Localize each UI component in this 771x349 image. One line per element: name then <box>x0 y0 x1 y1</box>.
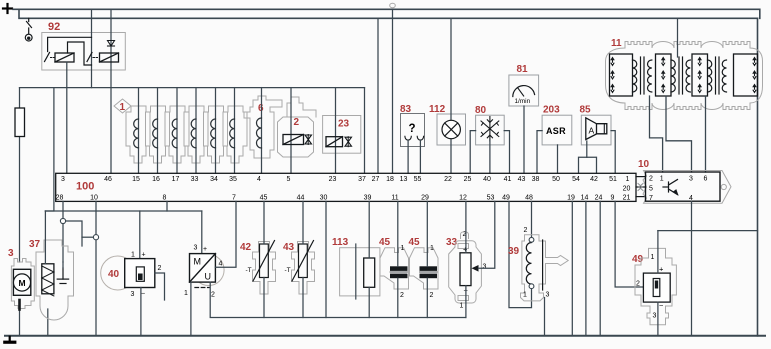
svg-text:M: M <box>18 278 25 288</box>
ECU top row pin labels <box>61 176 630 183</box>
ECU to connector 10 row links <box>636 177 646 197</box>
33 pin 3 arrow <box>472 265 479 272</box>
level sensor 37 resistor element <box>42 264 54 296</box>
svg-text:48: 48 <box>525 195 533 202</box>
wire: ECU pin 28 down to fuel pump with node <box>62 201 64 262</box>
ignition key switch <box>25 18 32 41</box>
svg-text:19: 19 <box>567 195 575 202</box>
ECU 100 box <box>56 173 636 201</box>
solenoid valve 23 wire to ECU pin 23 <box>335 88 337 174</box>
svg-text:23: 23 <box>329 176 337 183</box>
45b piezo plates <box>420 266 438 278</box>
connector 10 pin labels <box>649 176 708 202</box>
svg-text:-T: -T <box>285 267 291 274</box>
svg-text:35: 35 <box>229 176 237 183</box>
39 coil winding <box>526 243 531 285</box>
svg-text:12: 12 <box>459 195 467 202</box>
wire: 31 pin 2 to sensor return bus <box>210 282 466 317</box>
wire: feed drop to throttle switch 40 <box>139 211 141 259</box>
warning lamp 112 box <box>437 114 466 145</box>
injector coils <box>134 119 235 148</box>
relay 2 contact blade <box>87 53 92 62</box>
svg-text:2: 2 <box>430 292 434 299</box>
svg-text:4: 4 <box>219 261 223 268</box>
diagnostic connector 83 box <box>401 114 425 147</box>
fuse <box>15 108 25 137</box>
throttle switch 40 box <box>125 259 155 288</box>
svg-text:44: 44 <box>297 195 305 202</box>
lamp 112 bulb <box>442 120 460 138</box>
wire: ECU pin 7 to 31 pin 4 <box>215 201 236 267</box>
svg-text:ASR: ASR <box>546 126 566 136</box>
fuel pump 3 body outline <box>11 259 34 309</box>
wire: actuator feed horizontal <box>45 210 201 212</box>
39 terminal circles <box>529 237 534 242</box>
coil pack spark tower 1 <box>610 54 633 96</box>
svg-text:11: 11 <box>611 38 622 49</box>
wire: 85 bottom fork to ECU pins 54 and 42 <box>586 141 588 157</box>
wire: relay1 contact feed inside box 92 <box>48 37 92 51</box>
wire: 49 pin 1 feed from right rail <box>657 231 659 274</box>
svg-text:112: 112 <box>429 104 446 115</box>
idle actuator 31 box <box>190 254 216 283</box>
wire: 85 right stub to ECU pin 51 <box>611 131 615 174</box>
svg-text:5: 5 <box>287 176 291 183</box>
wire: coil pack output to connector 10 pin 1 <box>650 96 663 172</box>
wire: 83 right contact to ECU pin 55 <box>419 140 421 173</box>
svg-text:92: 92 <box>48 21 60 33</box>
buzzer horn symbol with A <box>586 118 607 140</box>
wire: rail2 through lamp 112 to ECU pin 22 <box>450 18 452 173</box>
33 sensing element <box>460 253 471 286</box>
wire: ECU pin 19 to ground <box>571 201 573 335</box>
injector 4 body <box>184 106 208 163</box>
injector 2 body <box>146 106 170 163</box>
idle actuator 31 circle <box>193 255 224 286</box>
svg-text:38: 38 <box>532 176 540 183</box>
wire: top supply rail 1 <box>13 9 760 18</box>
wire: ECU pin 9 to hall sensor pin 2 <box>615 201 643 287</box>
tachometer gauge arc and needle <box>513 86 535 97</box>
svg-text:25: 25 <box>464 176 472 183</box>
wire: ECU pin 45 through 42 to return bus <box>263 201 265 244</box>
wire: ECU pin 39 through 113 to return bus <box>368 201 370 258</box>
snowflake symbol <box>481 117 499 142</box>
wire: feed drop to idle actuator 31 pin 3 <box>201 211 203 254</box>
svg-text:1: 1 <box>660 176 664 183</box>
wire: coil pack output to connector 10 pin 6 <box>705 96 707 172</box>
svg-text:2: 2 <box>400 292 404 299</box>
svg-text:10: 10 <box>638 159 650 170</box>
svg-text:40: 40 <box>108 269 120 280</box>
AC request 80 box <box>476 115 505 145</box>
wire: 203 bottom to ECU pin 50 <box>557 145 559 173</box>
wire: ECU pin 49 to crank sensor pin 1 <box>509 201 532 307</box>
wire: 49 pin 3 to ground <box>657 302 659 336</box>
113 resistor element <box>364 258 375 287</box>
wire: fuel pump supply from bus with fuse <box>19 88 21 262</box>
injector 1 body <box>126 106 150 163</box>
solenoid valve 23 box <box>323 116 361 154</box>
lambda sensor 33 body <box>449 241 482 303</box>
svg-text:2: 2 <box>636 281 640 288</box>
svg-text:100: 100 <box>76 181 94 193</box>
knock sensor 45b body <box>410 248 439 289</box>
relay 1 coil <box>55 53 74 62</box>
coil pack windings 1 <box>633 57 652 94</box>
coil 6 wire to ECU pin 4 <box>261 88 263 174</box>
39 core line <box>542 240 544 290</box>
battery plus terminal <box>3 4 12 13</box>
ground rail bottom <box>5 335 765 337</box>
wire: 83 left contact to ECU pin 13 <box>407 140 409 173</box>
solenoid valve 2 neck outline <box>287 97 316 117</box>
wire: 203 left stub to ECU pin 38 <box>537 131 542 174</box>
svg-text:18: 18 <box>386 176 394 183</box>
svg-text:1/min: 1/min <box>515 98 531 105</box>
wire: 39 pin 3 to ground <box>544 298 546 336</box>
svg-text:3: 3 <box>546 292 550 299</box>
wire: relay1 coil output to ECU pin 3 <box>66 62 68 173</box>
40 pin labels <box>131 252 162 299</box>
svg-text:80: 80 <box>475 105 487 116</box>
svg-text:8: 8 <box>163 195 167 202</box>
svg-text:7: 7 <box>649 195 653 202</box>
svg-text:41: 41 <box>504 176 512 183</box>
wire: ECU pin 30 to return bus <box>325 201 327 317</box>
svg-text:1: 1 <box>184 290 188 297</box>
svg-text:22: 22 <box>444 176 452 183</box>
svg-text:A: A <box>589 126 595 136</box>
svg-text:203: 203 <box>543 105 560 116</box>
wire: rail2 down to ECU pin 27 <box>377 18 379 173</box>
knock sensor 45a body <box>380 248 409 289</box>
ignition coil pack 11 housing <box>606 42 763 110</box>
wire: bus drop to actuator feed line <box>45 88 54 211</box>
svg-text:2: 2 <box>211 292 215 299</box>
svg-text:54: 54 <box>572 176 580 183</box>
svg-text:29: 29 <box>421 195 429 202</box>
wire: coil pack output to connector 10 pin 3 <box>666 96 692 172</box>
wire: injector supply bus <box>20 87 365 89</box>
wire: ECU pin 11 through 45a to return bus <box>397 201 399 266</box>
injector 6 body <box>223 106 247 163</box>
45a piezo plates <box>390 266 408 278</box>
resistor 113 box <box>340 248 380 296</box>
wire: ECU pin 14 to ground <box>585 201 587 335</box>
switch element inside 40 <box>136 267 144 281</box>
svg-text:1: 1 <box>460 303 464 310</box>
coil pack spark tower 2 <box>656 54 672 96</box>
relay 1 contact blade <box>45 53 50 62</box>
svg-text:1: 1 <box>401 245 405 252</box>
solenoid valve 2 body outline <box>278 117 314 157</box>
wire: bus end down to ECU pin 37 <box>364 88 366 174</box>
svg-text:4: 4 <box>257 176 261 183</box>
solenoid valve 2 wire to ECU pin 5 <box>290 88 292 174</box>
hook contacts inside 83 <box>405 136 424 140</box>
svg-text:9: 9 <box>611 195 615 202</box>
svg-text:21: 21 <box>623 195 631 202</box>
42 resistor element <box>253 241 275 282</box>
svg-text:15: 15 <box>132 176 140 183</box>
svg-text:50: 50 <box>552 176 560 183</box>
svg-text:U: U <box>205 272 212 282</box>
31 minus dashes <box>195 287 209 289</box>
wire: rail1 drop to relay coil 2 / ECU pin 46 <box>110 9 112 173</box>
solenoid valve 2 coil element <box>283 135 312 145</box>
31 pin labels <box>184 245 223 299</box>
injector 5 body <box>204 106 228 163</box>
wire: ECU pin 48 to crank sensor pin 2 <box>531 201 533 237</box>
svg-text:1: 1 <box>131 252 135 259</box>
level sensor 37 float contact <box>57 268 68 284</box>
buzzer 85 box <box>581 115 611 145</box>
svg-text:17: 17 <box>172 176 180 183</box>
svg-text:28: 28 <box>56 195 64 202</box>
svg-text:−: − <box>659 301 664 310</box>
svg-text:13: 13 <box>400 176 408 183</box>
svg-text:1: 1 <box>523 292 527 299</box>
coil pack windings 3 <box>708 57 727 94</box>
svg-text:42: 42 <box>590 176 598 183</box>
svg-text:11: 11 <box>391 195 398 202</box>
connector 10 module box <box>646 172 721 201</box>
svg-text:3: 3 <box>689 176 693 183</box>
solenoid valve 23 coil element <box>326 137 352 147</box>
svg-text:3: 3 <box>8 248 14 259</box>
svg-text:M: M <box>194 257 202 267</box>
wire: ECU pin 29 through 45b to return bus <box>426 201 428 266</box>
wire: 81 to ECU pin 43 <box>523 106 525 173</box>
diode above relay 2 <box>108 41 115 47</box>
coil 6 winding <box>257 118 262 148</box>
fuel pump 3 motor <box>13 269 30 295</box>
hall sensor 49 body <box>635 248 676 324</box>
wire: 80 left stub to ECU pin 25 <box>470 131 475 174</box>
svg-text:40: 40 <box>483 176 491 183</box>
svg-text:39: 39 <box>364 195 372 202</box>
air temp sensor 43 body <box>292 242 315 295</box>
wire: ECU pin 8 to actuator feed line <box>166 201 168 211</box>
wire: fuel pump bottom to ground <box>19 309 21 336</box>
wire: rail1 drop through box92 to injector bus (relay 2 contact feed) <box>91 9 93 87</box>
svg-text:113: 113 <box>332 237 349 248</box>
svg-text:42: 42 <box>240 242 252 253</box>
svg-text:3: 3 <box>61 176 65 183</box>
svg-text:+: + <box>142 252 146 259</box>
relay box 92 outline <box>42 33 126 71</box>
svg-text:43: 43 <box>283 242 295 253</box>
wire: 40 pin 2 stub <box>155 273 165 300</box>
svg-text:3: 3 <box>194 245 198 252</box>
injector 3 body <box>165 106 189 163</box>
svg-text:2: 2 <box>649 176 653 183</box>
svg-text:2: 2 <box>294 117 300 128</box>
wire: 40 pin 3 to ground <box>140 288 142 336</box>
hall element <box>653 279 660 297</box>
wire: feed line left end into sensor resistor <box>44 211 46 264</box>
wire: top supply rail 2 <box>19 9 758 18</box>
svg-text:45: 45 <box>379 237 391 248</box>
svg-text:5: 5 <box>649 186 653 193</box>
svg-text:45: 45 <box>260 195 268 202</box>
wire: ECU pin 12 through 33 <box>465 201 467 252</box>
throttle switch 40 circle <box>101 256 135 290</box>
fuel level sensor 37 body outline <box>36 240 74 320</box>
wire: node down into level sensor float <box>62 262 64 268</box>
svg-text:49: 49 <box>632 254 644 265</box>
connector arrows between ECU and 10 <box>638 184 643 191</box>
svg-text:53: 53 <box>487 195 495 202</box>
wire: rail1 down to ECU pin 18 <box>392 9 394 173</box>
svg-text:37: 37 <box>358 176 366 183</box>
wire: camshaft sensor supply from right rail <box>658 230 758 232</box>
wire: ECU pin 53 to 33 heater arrow <box>479 201 495 268</box>
ground symbol bottom-left <box>5 337 15 342</box>
wire: ECU pin 44 through 43 to return bus <box>302 201 304 244</box>
wire: rail2 drop into coil pack <box>677 18 679 57</box>
svg-text:14: 14 <box>581 195 589 202</box>
svg-text:2: 2 <box>158 265 162 272</box>
coil pack windings 2 <box>671 57 690 94</box>
wire: connector 10 pin 4 to ground <box>691 201 693 335</box>
svg-text:34: 34 <box>210 176 218 183</box>
svg-text:4: 4 <box>689 195 693 202</box>
ECU bottom row pin labels <box>56 195 631 202</box>
svg-text:45: 45 <box>409 237 421 248</box>
coil pack spark tower 4 <box>734 54 758 96</box>
wire: 80 right stub to ECU pin 41 <box>504 131 509 174</box>
connector 10 housing <box>643 171 731 204</box>
coil pack spark tower 3 <box>692 54 708 96</box>
svg-text:3: 3 <box>483 264 487 271</box>
wire: 31 pin 1 to ground <box>190 282 192 336</box>
wire: ECU pin 10 down with node branch <box>95 201 97 335</box>
svg-text:1: 1 <box>651 254 655 261</box>
injector group 1 label diamond <box>114 99 131 113</box>
svg-text:24: 24 <box>595 195 603 202</box>
svg-text:+: + <box>659 265 664 274</box>
svg-text:-T: -T <box>246 267 252 274</box>
lambda sensor 33 top clip <box>461 232 469 239</box>
svg-text:−: − <box>141 291 145 298</box>
wire: ECU pin 24 to ground <box>599 201 601 335</box>
injector coil wires to ECU pins 15 16 17 33 34 35 <box>139 88 235 174</box>
relay 2 coil <box>100 53 119 62</box>
hall sensor 49 box <box>643 273 670 302</box>
crank sensor 39 body <box>521 235 569 301</box>
svg-text:23: 23 <box>338 119 350 130</box>
svg-text:6: 6 <box>704 176 708 183</box>
coil 6 body outline <box>244 96 282 158</box>
svg-text:55: 55 <box>414 176 422 183</box>
svg-text:85: 85 <box>580 105 592 116</box>
svg-text:33: 33 <box>191 176 199 183</box>
svg-text:1: 1 <box>626 176 630 183</box>
43 resistor element <box>292 241 314 282</box>
ASR unit 203 box <box>542 115 572 145</box>
svg-text:?: ? <box>409 123 416 135</box>
coolant temp sensor 42 body <box>253 242 276 295</box>
svg-text:27: 27 <box>372 176 380 183</box>
svg-text:1: 1 <box>430 245 434 252</box>
svg-text:7: 7 <box>232 195 236 202</box>
connector node on rail1 at pin18 drop <box>390 3 396 7</box>
113 crossing line <box>355 244 357 299</box>
svg-text:37: 37 <box>29 239 41 250</box>
wire: level sensor 37 ground return <box>47 309 49 336</box>
svg-text:+: + <box>203 246 207 253</box>
wire: right edge vertical from rail2 down to ground <box>757 18 759 336</box>
svg-text:10: 10 <box>90 195 98 202</box>
tachometer 81 box <box>509 75 539 106</box>
svg-text:49: 49 <box>502 195 510 202</box>
svg-text:3: 3 <box>653 313 657 320</box>
svg-text:2: 2 <box>524 227 528 234</box>
svg-text:1: 1 <box>120 102 126 113</box>
svg-text:51: 51 <box>609 176 617 183</box>
wire: 80 bottom to ECU pin 40 <box>489 140 491 173</box>
svg-text:20: 20 <box>623 186 631 193</box>
svg-text:30: 30 <box>320 195 328 202</box>
wire: node branch to level sensor <box>66 221 82 246</box>
svg-text:16: 16 <box>152 176 160 183</box>
svg-text:46: 46 <box>104 176 112 183</box>
svg-text:81: 81 <box>517 64 529 75</box>
svg-text:39: 39 <box>508 246 520 257</box>
wire: relay1 inner link <box>68 42 92 65</box>
svg-text:3: 3 <box>131 291 135 298</box>
power stage transistor inside 10 <box>663 180 678 195</box>
svg-text:43: 43 <box>518 176 526 183</box>
